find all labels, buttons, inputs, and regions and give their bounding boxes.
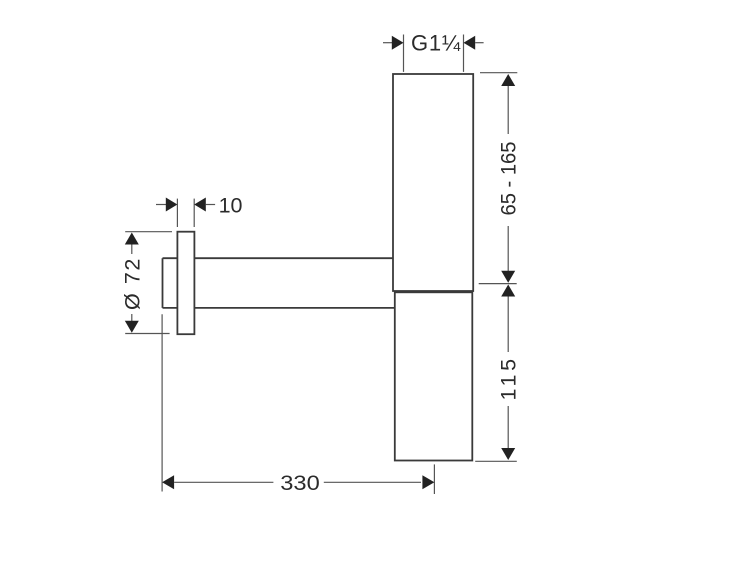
extension line left [176,199,178,227]
dimension 115 (lower cup height) [475,285,520,462]
arrowhead pointing down [125,321,139,333]
dimension 10 (flange thickness) [156,194,243,228]
leader tail left [156,204,166,206]
siphon upper body tube [393,74,473,291]
dimension Ø 72 (flange diameter) [120,232,172,334]
arrowhead pointing up [501,285,515,297]
leader tail right [206,204,215,206]
extension line middle [479,283,517,285]
dimension G 1 1/4 (top thread) [383,31,484,72]
leader tail right [475,42,483,44]
dimension 65 - 165 (upper tube height) [479,73,521,284]
arrowhead pointing left [464,36,476,50]
arrowhead pointing left [162,475,174,489]
dimension line lower segment [507,226,509,271]
dimension line lower segment [131,314,133,321]
extension line right [193,199,195,227]
dimension line right segment [324,481,421,483]
svg-text:10: 10 [219,194,243,218]
svg-text:65 - 165: 65 - 165 [497,141,521,215]
arrowhead pointing right [166,198,178,212]
arrowhead pointing down [501,448,515,460]
extension line bottom [125,333,169,335]
dimension line upper segment [131,245,133,255]
arrowhead pointing left [194,198,206,212]
extension line top [125,231,172,233]
dimension line lower segment [507,406,509,449]
svg-text:G1¼: G1¼ [411,31,461,56]
extension line right [463,35,465,72]
inlet pipe (horizontal) [163,258,395,308]
svg-text:115: 115 [497,355,521,400]
arrowhead pointing up [501,74,515,86]
extension line top [480,72,517,74]
dimension 330 (wall to trap centre) [162,314,434,495]
leader tail left [383,42,392,44]
arrowhead pointing right [422,475,434,489]
extension line left [403,35,405,72]
siphon lower cup [395,292,473,460]
extension line left [161,314,163,491]
arrowhead pointing up [125,233,139,245]
svg-text:Ø 72: Ø 72 [120,257,144,310]
arrowhead pointing down [501,271,515,283]
wall flange (rosette) [177,232,194,335]
dimension line left segment [174,481,273,483]
extension line right [433,464,435,494]
svg-text:330: 330 [280,471,320,495]
arrowhead pointing right [392,36,404,50]
dimension line upper segment [507,86,509,134]
dimension line upper segment [507,297,509,353]
extension line bottom [475,460,517,462]
